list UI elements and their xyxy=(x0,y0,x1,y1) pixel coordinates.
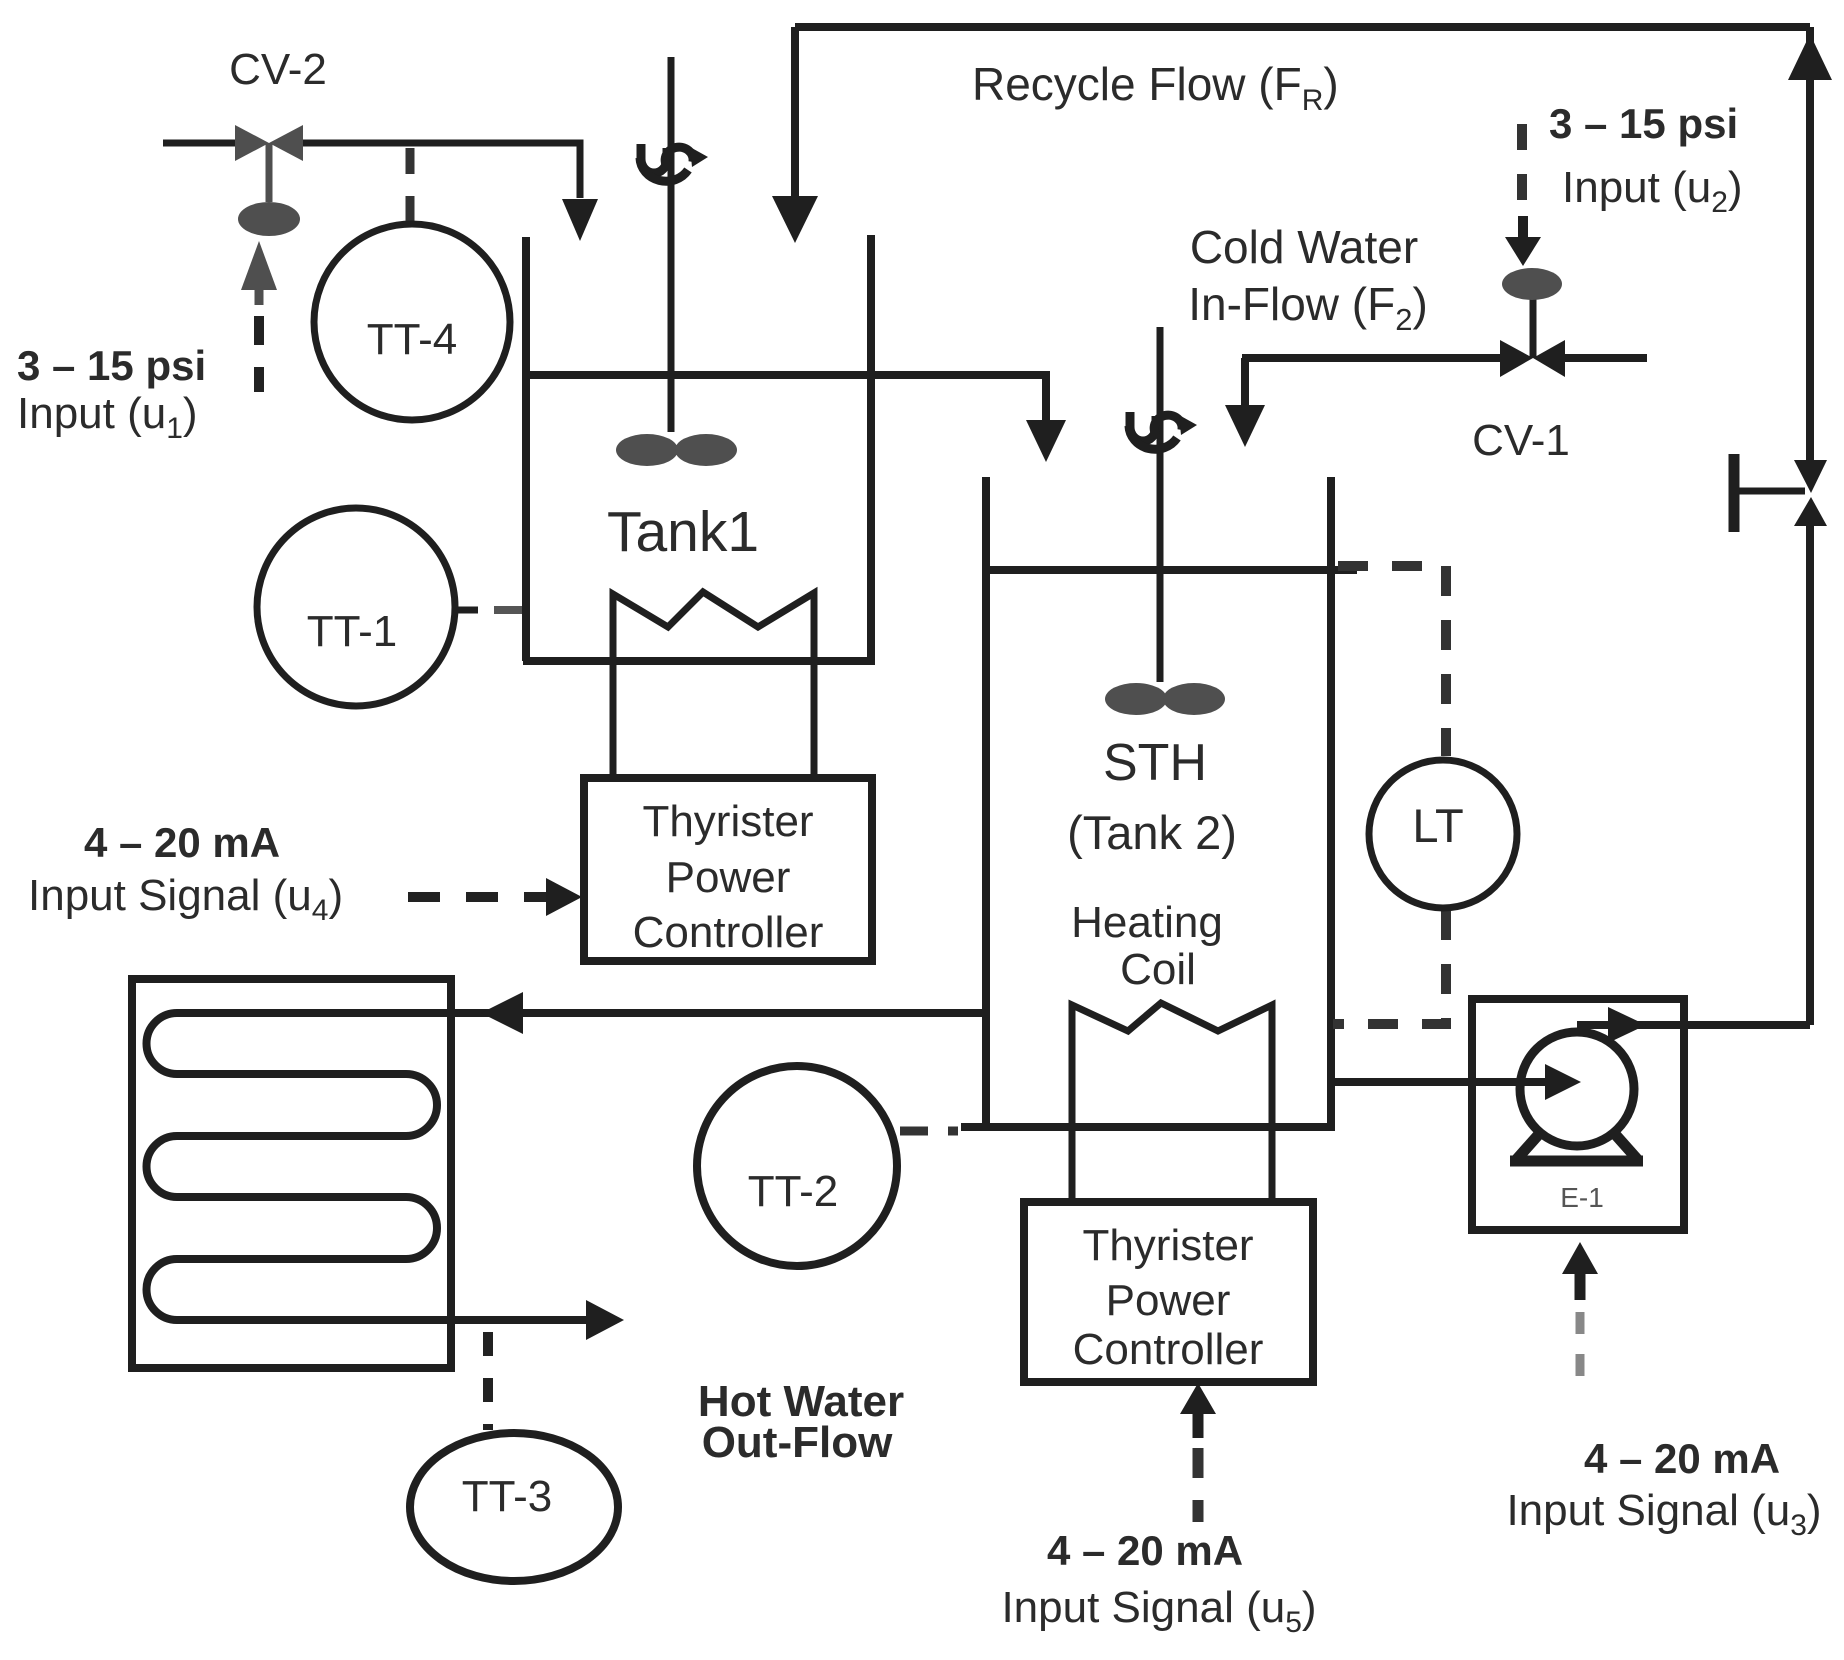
svg-text:CV-1: CV-1 xyxy=(1472,416,1570,465)
svg-text:Controller: Controller xyxy=(1073,1325,1264,1374)
svg-text:Recycle Flow (FR): Recycle Flow (FR) xyxy=(972,58,1339,117)
svg-text:TT-3: TT-3 xyxy=(462,1472,552,1521)
svg-text:In-Flow (F2): In-Flow (F2) xyxy=(1188,278,1428,337)
svg-text:TT-4: TT-4 xyxy=(367,315,457,364)
svg-text:3 – 15 psi: 3 – 15 psi xyxy=(17,342,206,389)
svg-text:Input Signal (u5): Input Signal (u5) xyxy=(1001,1583,1316,1639)
svg-text:Tank1: Tank1 xyxy=(607,500,759,564)
svg-text:4 – 20 mA: 4 – 20 mA xyxy=(1584,1435,1780,1482)
svg-text:3 – 15 psi: 3 – 15 psi xyxy=(1549,100,1738,147)
svg-text:TT-1: TT-1 xyxy=(307,607,397,656)
svg-text:Input Signal (u4): Input Signal (u4) xyxy=(28,871,343,927)
svg-text:Coil: Coil xyxy=(1120,945,1196,994)
svg-text:CV-2: CV-2 xyxy=(229,45,327,94)
svg-text:Heating: Heating xyxy=(1071,898,1223,947)
svg-text:4 – 20 mA: 4 – 20 mA xyxy=(84,819,280,866)
svg-text:Controller: Controller xyxy=(633,908,824,957)
svg-text:Thyrister: Thyrister xyxy=(1082,1221,1253,1270)
svg-text:TT-2: TT-2 xyxy=(748,1167,838,1216)
svg-text:4 – 20 mA: 4 – 20 mA xyxy=(1047,1527,1243,1574)
svg-text:Thyrister: Thyrister xyxy=(642,797,813,846)
svg-text:Cold Water: Cold Water xyxy=(1190,221,1418,273)
svg-text:STH: STH xyxy=(1103,734,1207,792)
svg-text:E-1: E-1 xyxy=(1560,1182,1604,1213)
svg-text:(Tank 2): (Tank 2) xyxy=(1067,806,1237,859)
svg-text:LT: LT xyxy=(1412,799,1463,852)
svg-text:Power: Power xyxy=(1106,1276,1231,1325)
svg-text:Input Signal (u3): Input Signal (u3) xyxy=(1506,1486,1821,1542)
svg-text:Out-Flow: Out-Flow xyxy=(702,1418,893,1467)
svg-text:Power: Power xyxy=(666,853,791,902)
